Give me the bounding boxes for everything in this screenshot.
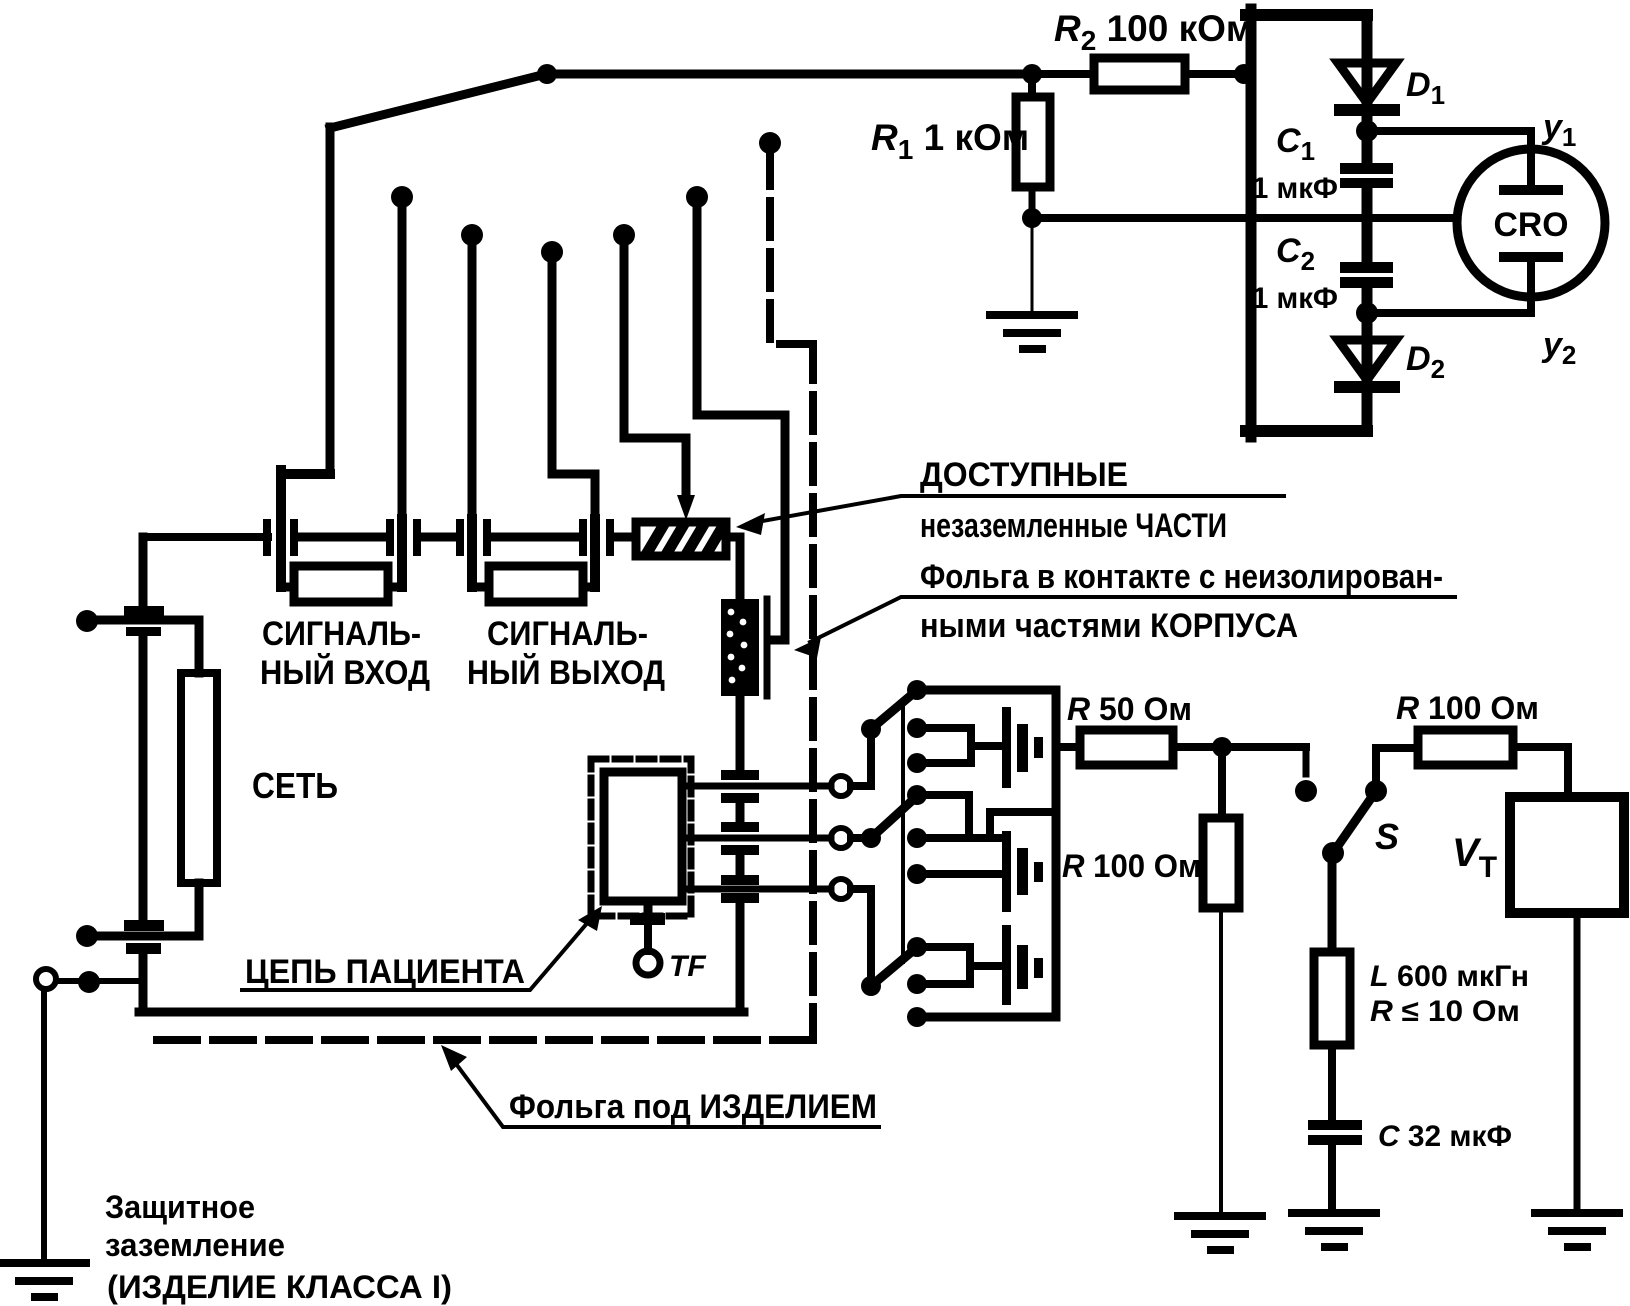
wire: chain segment C2 to D2 <box>1362 288 1373 337</box>
wire: C 32 to ground <box>1328 1145 1336 1212</box>
wire: signal output connector right wall <box>590 519 600 587</box>
switch: selector wiper 2 arm <box>871 798 915 838</box>
svg-text:заземление: заземление <box>105 1227 285 1263</box>
node: selector contact dot 2 <box>907 718 927 738</box>
arrowhead: patient circuit pointer <box>578 906 602 931</box>
terminal: TF functional-earth stub of patient circuit <box>630 901 665 975</box>
wire: measuring network top line contact1 to right bus <box>917 686 1056 695</box>
wire: contact2 lead <box>917 724 971 732</box>
wire: chain segment D1 to C1 <box>1362 60 1373 164</box>
node: y1 tap junction dot <box>1356 120 1378 142</box>
capacitor: signal input right pass-through inner plate <box>386 519 394 556</box>
wire: contact4 lead with drop to cell2 feed <box>917 795 969 838</box>
oscilloscope CRO: upper deflection plate <box>1504 185 1558 195</box>
svg-text:ными частями КОРПУСА: ными частями КОРПУСА <box>920 607 1298 645</box>
wire: R 100 to voltmeter VT <box>1513 747 1568 797</box>
resistor: R 100 Om top right <box>1418 730 1513 765</box>
capacitor: C 32 uF plates <box>1308 1120 1362 1145</box>
wire: switch S to inductor L <box>1328 853 1337 952</box>
capacitor C2 plates <box>1340 262 1393 288</box>
cell: measuring network cell 1 plates <box>1002 707 1043 788</box>
svg-text:C 32 мкФ: C 32 мкФ <box>1378 1120 1512 1153</box>
wire: signal input internal segment <box>298 533 387 542</box>
capacitor: patient lead 1 pass-through plates <box>721 770 759 803</box>
capacitor: patient lead 2 pass-through plates <box>721 822 759 855</box>
wire: segment from signal output to accessible part <box>614 533 635 542</box>
wire: contact7-contact8 tie and cell3 feed <box>970 947 1004 984</box>
node: wiper 1 pivot dot <box>861 719 881 739</box>
svg-text:Фольга под ИЗДЕЛИЕМ: Фольга под ИЗДЕЛИЕМ <box>509 1088 877 1126</box>
capacitor: mains terminal 2 wall pass-through upper plate <box>124 920 164 931</box>
wire: contact7 lead <box>917 943 970 951</box>
resistor: R 50 Om <box>1080 730 1173 765</box>
node: junction dot at measuring box edge <box>1234 64 1254 84</box>
wire: measuring network bottom line contact9 to right bus <box>917 1013 1056 1022</box>
diode D2 <box>1334 340 1400 393</box>
node: switch S throw contact dot <box>1365 780 1387 802</box>
node: junction dot at top bus left end <box>537 64 557 84</box>
arrowhead: accessible parts pointer <box>736 513 765 535</box>
wire: probe F vertical with elbow down to case foil strip <box>697 197 785 640</box>
wire: patient lead 3 <box>682 886 831 893</box>
pointer: underline and arrow to patient circuit <box>242 914 595 990</box>
wire: lead 1 to selector wiper 1 pivot <box>851 729 871 786</box>
node: selector contact dot 9 <box>907 1007 927 1027</box>
wire: R 100 vertical lower lead to ground <box>1219 908 1223 1215</box>
node: selector contact dot 6 <box>907 864 927 884</box>
wire: signal input connector right wall <box>397 519 407 587</box>
wire: foil under equipment dashed bottom line <box>145 1036 813 1044</box>
node: probe G dot (dashed probe) <box>759 132 781 154</box>
capacitor: signal output left pass-through inner plate <box>483 519 491 556</box>
terminal: patient lead 2 open circle <box>831 828 851 848</box>
capacitor: signal input left pass-through inner plate <box>290 519 298 556</box>
svg-text:R 100 Ом: R 100 Ом <box>1396 690 1539 726</box>
wire: measuring box left edge <box>1246 9 1257 437</box>
wire: signal input connector left wall (case boundary) <box>281 470 330 587</box>
wire: chain bottom segment <box>1362 337 1373 431</box>
pointer: label line to foil in contact with case <box>810 597 1455 642</box>
svg-text:СЕТЬ: СЕТЬ <box>252 765 338 806</box>
node: probe F dot <box>686 186 708 208</box>
wire: patient lead 1 <box>682 783 831 790</box>
wire: y1 line to CRO upper plate <box>1367 131 1531 186</box>
resistor: signal input internal impedance <box>294 566 388 602</box>
wire: patient lead 2 <box>682 835 831 842</box>
cell: measuring network cell 3 plates <box>1002 925 1043 1005</box>
wire: switch S open contact stub <box>1303 747 1310 774</box>
svg-text:ЦЕПЬ ПАЦИЕНТА: ЦЕПЬ ПАЦИЕНТА <box>245 953 525 991</box>
wire: L to C 32 <box>1328 1045 1336 1122</box>
node: junction dot at R1/R2 <box>1022 64 1042 84</box>
wire: contact6 lead feeding cell2 lower <box>917 870 1004 878</box>
wire: foil right boundary dashed vertical <box>809 344 817 1040</box>
switch: selector wiper 3 arm <box>871 949 915 986</box>
wire: contact2-contact3 tie and cell1 feed <box>971 728 1004 763</box>
node: mains terminal 2 dot <box>76 925 98 947</box>
patient circuit: outer dashed box <box>591 759 691 916</box>
inductor: L 600 uH box <box>1314 952 1350 1045</box>
wire: chain segment C1 to C2 <box>1362 188 1373 263</box>
wire: R 50 output to open contact stub <box>1173 743 1306 751</box>
wire: signal output internal segment <box>491 533 578 542</box>
node: probe D dot <box>541 241 563 263</box>
arrowhead: probe E pointing into accessible part <box>677 495 695 520</box>
arrowhead: foil contact pointer <box>794 637 821 658</box>
wire: probe B vertical <box>398 197 407 519</box>
node: probe B dot <box>391 186 413 208</box>
node: probe C dot <box>461 224 483 246</box>
wire: enclosure left wall (middle segment) <box>139 636 148 922</box>
svg-text:(ИЗДЕЛИЕ КЛАССА I): (ИЗДЕЛИЕ КЛАССА I) <box>107 1269 452 1305</box>
foil: strip in contact with uninsulated case parts (textured) <box>721 599 759 696</box>
pointer: label line to accessible ungrounded parts <box>757 496 1284 522</box>
wire: R2 output to measuring box <box>1185 70 1250 78</box>
resistor: R1 1 kOm <box>1016 97 1050 187</box>
wire: R1 bottom lead <box>1029 187 1036 218</box>
oscilloscope CRO: body circle <box>1457 149 1605 297</box>
wire: segment between signal input and signal output <box>421 533 457 542</box>
wire: diode-capacitor chain top segment <box>1362 15 1373 60</box>
pointer: underline and arrow to foil under equipment <box>448 1053 879 1127</box>
wire: contact8 lead <box>917 980 970 988</box>
wire: measuring box top edge <box>1246 9 1367 21</box>
wire: enclosure top wall left segment to mains corner <box>147 533 268 541</box>
terminal: patient lead 1 open circle <box>831 776 851 796</box>
wire: throw contact up to R 100 top <box>1376 748 1418 791</box>
wire: bus tap to cell2 feed <box>990 812 1056 838</box>
wire: enclosure left wall (upper segment) <box>139 537 148 608</box>
svg-text:Фольга в контакте с неизолиров: Фольга в контакте с неизолирован- <box>920 558 1443 596</box>
wire: case right wall segments between patient capacitors <box>736 803 745 1012</box>
wire: contact3 lead <box>917 759 971 767</box>
node: selector contact dot 7 <box>907 937 927 957</box>
ground: below vertical R 100 <box>1178 1216 1262 1250</box>
wire: case right wall from foil strip down to patient capacitors <box>736 696 745 772</box>
wire: signal output impedance leads <box>472 583 595 592</box>
svg-text:1 мкФ: 1 мкФ <box>1252 172 1338 205</box>
wire: lead 2 to selector wiper 2 pivot <box>851 834 871 842</box>
capacitor: signal output right pass-through outer plate <box>606 519 614 556</box>
capacitor: mains terminal 1 wall pass-through upper plate <box>124 606 164 619</box>
node: switch S pivot dot <box>1322 842 1344 864</box>
svg-text:S: S <box>1375 816 1399 857</box>
svg-text:R1 1 кОм: R1 1 кОм <box>871 117 1029 165</box>
capacitor: mains terminal 2 wall pass-through lower plate <box>126 943 161 954</box>
wire: enclosure bottom wall <box>139 1008 744 1017</box>
capacitor: mains terminal 1 wall pass-through lower plate <box>126 627 161 636</box>
capacitor: signal output left pass-through outer plate <box>456 519 464 556</box>
wire: probe A vertical to signal-input left wall <box>326 127 335 474</box>
wire: measuring box bottom edge <box>1246 425 1367 437</box>
svg-text:НЫЙ ВЫХОД: НЫЙ ВЫХОД <box>467 653 665 692</box>
svg-text:CRO: CRO <box>1494 206 1569 244</box>
capacitor: signal output right pass-through inner plate <box>579 519 587 556</box>
resistor: R 100 Om vertical <box>1203 818 1239 908</box>
switch: selector wiper 1 arm <box>871 692 915 729</box>
capacitor: patient lead 3 pass-through plates <box>721 875 759 903</box>
node: junction dot below R1 <box>1022 208 1042 228</box>
resistor: R2 100 kOm <box>1094 58 1185 90</box>
wire: lead 3 to selector wiper 3 pivot <box>851 889 871 986</box>
svg-text:НЫЙ ВХОД: НЫЙ ВХОД <box>260 653 430 692</box>
ground: below R1 <box>990 315 1074 349</box>
wire: junction down to vertical R 100 <box>1218 747 1226 818</box>
wire: VT bottom lead to ground <box>1574 913 1581 1213</box>
patient circuit: inner solid box <box>604 772 682 901</box>
node: protective earth tap dot on enclosure <box>78 971 100 993</box>
wire: signal output connector left wall <box>467 519 477 587</box>
svg-text:СИГНАЛЬ-: СИГНАЛЬ- <box>262 615 421 653</box>
wire: signal input impedance leads <box>281 583 402 592</box>
ground: protective earth symbol <box>2 1263 86 1297</box>
capacitor C1 plates <box>1340 163 1393 188</box>
wire: top bus into R2 <box>1032 70 1094 78</box>
terminal: patient lead 3 open circle <box>831 879 851 899</box>
switch S: arm <box>1333 791 1376 853</box>
wire: probe C vertical <box>468 235 477 519</box>
accessible part: hatched box (accessible ungrounded part) <box>636 522 726 556</box>
svg-text:R 100 Ом: R 100 Ом <box>1062 848 1201 884</box>
node: wiper 3 pivot dot <box>861 976 881 996</box>
wire: mains load bottom lead to terminal 2 <box>93 883 199 936</box>
ground: below VT <box>1535 1213 1619 1247</box>
svg-text:Защитное: Защитное <box>105 1189 255 1225</box>
wire: protective earth down lead <box>41 989 47 1263</box>
switch: selector gang coupling line <box>901 700 905 962</box>
voltmeter: VT box <box>1510 797 1624 913</box>
node: selector contact dot 4 <box>907 785 927 805</box>
wire: probe D vertical with elbow to signal-output right wall <box>552 252 595 519</box>
ground: below C 32 <box>1292 1213 1376 1247</box>
svg-text:R ≤ 10 Ом: R ≤ 10 Ом <box>1370 995 1520 1028</box>
node: selector contact dot 1 <box>907 680 927 700</box>
oscilloscope CRO: lower deflection plate <box>1504 252 1558 262</box>
foil: strip side contact bar <box>764 599 771 696</box>
wire: enclosure left wall (lower segment) <box>139 954 148 1012</box>
wire: mains terminal 1 lead through wall to internal load <box>93 620 199 673</box>
resistor: mains internal load box <box>181 673 217 883</box>
capacitor: signal input right pass-through outer plate <box>413 519 421 556</box>
wire: top supply bus y=74 <box>546 70 1032 79</box>
wire: diagonal from top bus to probe A <box>330 74 546 128</box>
node: junction dot after R 50 <box>1212 737 1232 757</box>
node: selector contact dot 3 <box>907 753 927 773</box>
wire: probe E vertical with elbow to accessible-part arrow <box>624 235 686 500</box>
arrowhead: foil under equipment pointer <box>441 1045 467 1071</box>
wire: contact5 lead feeding cell2 <box>917 834 1004 842</box>
node: selector contact dot 5 <box>907 828 927 848</box>
wire: measuring network right bus <box>1052 690 1061 1017</box>
wire: R1 top stub <box>1028 74 1036 97</box>
svg-text:СИГНАЛЬ-: СИГНАЛЬ- <box>487 615 648 653</box>
wire: protective earth tap to enclosure wall <box>56 978 143 984</box>
capacitor: signal input left pass-through outer plate <box>263 519 271 556</box>
wire: R1 junction thin lead to ground <box>1031 218 1034 315</box>
node: selector contact dot 8 <box>907 974 927 994</box>
node: wiper 2 pivot dot <box>861 828 881 848</box>
svg-text:TF: TF <box>669 950 706 983</box>
node: mains terminal 1 dot <box>76 610 98 632</box>
cell: measuring network cell 2 plates <box>1002 831 1043 912</box>
wire: y2 line from CRO lower plate <box>1367 257 1531 313</box>
wire: probe G dashed vertical to foil boundary <box>770 150 813 344</box>
node: switch S open contact dot <box>1295 780 1317 802</box>
resistor: signal output internal impedance <box>489 566 583 602</box>
svg-text:незаземленные ЧАСТИ: незаземленные ЧАСТИ <box>920 507 1227 545</box>
svg-text:ДОСТУПНЫЕ: ДОСТУПНЫЕ <box>920 456 1128 494</box>
node: probe E dot <box>613 224 635 246</box>
wire: mid reference line from R1 junction to CRO <box>1032 214 1456 222</box>
wire: measuring network output to R 50 <box>1056 743 1080 751</box>
svg-text:R 50 Ом: R 50 Ом <box>1067 691 1192 727</box>
node: protective earth terminal circle <box>36 969 56 989</box>
svg-text:L 600 мкГн: L 600 мкГн <box>1370 960 1529 993</box>
svg-text:1 мкФ: 1 мкФ <box>1252 282 1338 315</box>
wire: segment from accessible part to case right wall <box>726 537 740 600</box>
diode D1 <box>1334 63 1400 116</box>
node: y2 tap junction dot <box>1356 302 1378 324</box>
